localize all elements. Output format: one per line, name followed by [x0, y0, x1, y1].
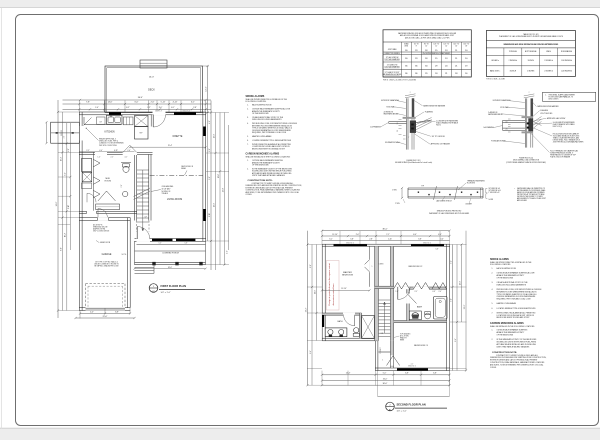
svg-text:DINETTE: DINETTE	[173, 136, 183, 138]
svg-text:CODES.: CODES.	[490, 367, 497, 369]
svg-text:6'-8": 6'-8"	[418, 239, 422, 241]
svg-text:2x RIM BD W/: 2x RIM BD W/	[384, 112, 394, 114]
svg-text:5'-1": 5'-1"	[209, 176, 211, 180]
svg-text:W 3/4" DECK BD: W 3/4" DECK BD	[540, 113, 553, 115]
svg-text:11'-4": 11'-4"	[346, 373, 351, 375]
svg-text:FOLLOWING LOCATIONS:: FOLLOWING LOCATIONS:	[490, 263, 511, 266]
svg-text:TOP EDGE: TOP EDGE	[509, 51, 517, 53]
svg-text:A1: A1	[152, 290, 154, 293]
svg-text:5'-8": 5'-8"	[350, 239, 354, 241]
svg-text:28'-0": 28'-0"	[218, 173, 220, 178]
svg-text:11'-10": 11'-10"	[332, 234, 338, 236]
svg-text:1/4" = 1'-0": 1/4" = 1'-0"	[397, 411, 407, 413]
svg-text:6'-8": 6'-8"	[433, 373, 437, 375]
svg-text:6'-1": 6'-1"	[329, 239, 333, 241]
svg-text:GARAGE: GARAGE	[102, 253, 112, 256]
svg-text:2'-0": 2'-0"	[63, 135, 65, 138]
svg-text:dimensions noted here: dimensions noted here	[332, 283, 335, 306]
svg-text:3/4 INCH: 3/4 INCH	[528, 60, 534, 62]
svg-text:3'-8": 3'-8"	[209, 148, 211, 152]
svg-text:LIVING ROOM: LIVING ROOM	[167, 199, 182, 201]
svg-text:2 INCHES b: 2 INCHES b	[544, 60, 553, 62]
svg-text:4'-11": 4'-11"	[173, 102, 178, 104]
svg-text:Design is posted about to the: Design is posted about to the square ext…	[328, 263, 331, 306]
svg-text:BEDROOM #3: BEDROOM #3	[414, 345, 428, 347]
svg-text:BEDROOM: BEDROOM	[342, 275, 353, 277]
svg-text:14'-6": 14'-6"	[108, 102, 113, 104]
svg-text:DWELLING INCLUDING BASEMENTS: DWELLING INCLUDING BASEMENTS	[252, 118, 282, 121]
svg-text:ENDS: ENDS	[546, 51, 550, 53]
svg-text:14'1" TO: 14'1" TO	[454, 44, 460, 46]
svg-text:SMOKE ALARMS: SMOKE ALARMS	[490, 258, 509, 261]
svg-text:SHOWN IN THE FIGURE TO COMPLY: SHOWN IN THE FIGURE TO COMPLY	[517, 196, 543, 198]
svg-text:CODES.: CODES.	[246, 194, 253, 196]
svg-text:FIRST FLOOR PLAN: FIRST FLOOR PLAN	[161, 284, 187, 288]
svg-text:SELF CLOSING DEVICE: SELF CLOSING DEVICE	[93, 231, 109, 233]
svg-text:HABITED LIVING AREAS: HABITED LIVING AREAS	[252, 135, 272, 138]
svg-text:NOSING OF: NOSING OF	[162, 191, 171, 193]
svg-text:4'-1": 4'-1"	[209, 120, 211, 124]
svg-text:1'-4": 1'-4"	[95, 107, 99, 109]
svg-text:COVERED PORCH: COVERED PORCH	[162, 253, 179, 255]
svg-text:CARBON MONOXIDE ALARMS: CARBON MONOXIDE ALARMS	[490, 322, 524, 325]
svg-text:BATH: BATH	[338, 320, 344, 323]
svg-text:2'-2": 2'-2"	[147, 107, 151, 109]
svg-text:2 INCHES: 2 INCHES	[527, 71, 534, 73]
svg-text:2'-5": 2'-5"	[415, 291, 418, 293]
svg-text:REQUIRED, PER TOWN AND LOCAL C: REQUIRED, PER TOWN AND LOCAL CODE	[252, 131, 287, 134]
svg-text:NOTE:: NOTE:	[122, 254, 127, 256]
svg-text:4'-0": 4'-0"	[90, 311, 94, 313]
svg-text:6'-0": 6'-0"	[413, 234, 417, 236]
svg-text:6'-1": 6'-1"	[191, 102, 195, 104]
svg-text:3/4" MIN FOR 2x10: 3/4" MIN FOR 2x10	[489, 190, 501, 192]
svg-text:2" MIN: 2" MIN	[392, 190, 397, 192]
svg-text:EACH SLEEPING ROOM: EACH SLEEPING ROOM	[497, 267, 517, 270]
svg-text:16'-0": 16'-0"	[168, 267, 173, 269]
svg-text:5: 5	[382, 360, 383, 362]
svg-text:1-5/8 INCHES b: 1-5/8 INCHES b	[561, 60, 572, 62]
svg-text:4'-0": 4'-0"	[438, 234, 442, 236]
svg-text:8'-1": 8'-1"	[310, 264, 312, 268]
svg-text:NEW BOXED IN: NEW BOXED IN	[181, 166, 194, 168]
svg-text:10'-2": 10'-2"	[65, 232, 67, 237]
svg-text:OF THE BEDROOMS: OF THE BEDROOMS	[252, 113, 269, 115]
svg-text:OF THE BEDROOMS: OF THE BEDROOMS	[252, 165, 269, 167]
svg-text:8'-11": 8'-11"	[209, 213, 211, 218]
svg-text:13'-6": 13'-6"	[459, 280, 461, 285]
svg-text:BATH: BATH	[417, 305, 423, 308]
svg-text:SHALL BE INSTALLED IN THE FOLL: SHALL BE INSTALLED IN THE FOLLOWING LOCA…	[490, 325, 535, 328]
svg-text:5'-8": 5'-8"	[436, 249, 439, 251]
svg-text:BEDROOMS EVERY ROOMS AND STORY: BEDROOMS EVERY ROOMS AND STORY	[252, 147, 286, 150]
svg-text:1'-11": 1'-11"	[388, 239, 393, 241]
svg-text:2'-6": 2'-6"	[151, 102, 155, 104]
svg-text:LEDGER a: LEDGER a	[491, 60, 499, 62]
svg-text:23'-2": 23'-2"	[305, 307, 307, 312]
svg-text:EACH SLEEPING ROOM: EACH SLEEPING ROOM	[252, 104, 272, 107]
svg-text:6'-8": 6'-8"	[433, 291, 436, 293]
svg-text:TYP: TYP	[421, 186, 424, 188]
svg-text:5'-0": 5'-0"	[383, 373, 387, 375]
svg-text:KITCHEN: KITCHEN	[104, 131, 114, 133]
svg-text:2" MIN: 2" MIN	[395, 203, 400, 205]
svg-text:5'-11": 5'-11"	[161, 102, 166, 104]
svg-text:R507.9.1.3(1): R507.9.1.3(1)	[553, 126, 563, 128]
svg-text:LESS: LESS	[404, 46, 408, 48]
svg-text:FOLLOWING LOCATIONS:: FOLLOWING LOCATIONS:	[246, 100, 267, 103]
svg-text:SCREW PREDRILLED W/ MIN. 3": SCREW PREDRILLED W/ MIN. 3"	[550, 152, 574, 154]
svg-text:REF: REF	[140, 133, 143, 135]
svg-text:MUD: MUD	[106, 178, 111, 180]
svg-text:BOTTOM EDGE: BOTTOM EDGE	[525, 51, 536, 53]
svg-text:6'-1": 6'-1"	[171, 107, 175, 109]
svg-text:FOR SI: 1 INCH = 25.4 MM: FOR SI: 1 INCH = 25.4 MM	[486, 79, 505, 81]
svg-text:SECOND FLOOR PLAN: SECOND FLOOR PLAN	[397, 402, 426, 406]
svg-text:2'-0": 2'-0"	[111, 157, 114, 159]
svg-text:7'-8": 7'-8"	[86, 102, 90, 104]
svg-text:6'-0": 6'-0"	[135, 102, 139, 104]
svg-text:6'-8": 6'-8"	[115, 311, 119, 313]
svg-text:14'-6": 14'-6"	[206, 86, 208, 91]
svg-text:1-5/8 INCHES b: 1-5/8 INCHES b	[561, 71, 572, 73]
svg-text:34'-0": 34'-0"	[56, 201, 58, 206]
svg-text:2x RIM BD W/: 2x RIM BD W/	[488, 112, 498, 114]
svg-text:15'-4": 15'-4"	[168, 145, 173, 147]
svg-text:1" MIN FOR 2x12: 1" MIN FOR 2x12	[489, 192, 500, 194]
svg-text:IN 2 ROWS: IN 2 ROWS	[467, 183, 475, 185]
svg-text:6'-8": 6'-8"	[405, 373, 409, 375]
svg-text:7'-1": 7'-1"	[386, 234, 390, 236]
svg-text:2'-8": 2'-8"	[121, 184, 123, 187]
svg-text:LEDGER: LEDGER	[466, 204, 473, 206]
svg-text:ROOM: ROOM	[105, 181, 112, 183]
svg-text:4'-2": 4'-2"	[125, 157, 128, 159]
svg-text:UNITS THAT HAVE ATTACHED GARAG: UNITS THAT HAVE ATTACHED GARAGES	[497, 345, 531, 348]
svg-text:2x MIN: 2x MIN	[489, 199, 493, 201]
svg-text:1'-6": 1'-6"	[98, 157, 101, 159]
svg-text:9'-6": 9'-6"	[455, 338, 457, 342]
svg-text:10'1" TO: 10'1" TO	[434, 44, 440, 46]
svg-text:FIGURE R507.2.1(1): FIGURE R507.2.1(1)	[406, 160, 421, 162]
svg-text:HABITED LIVING AREAS: HABITED LIVING AREAS	[497, 302, 517, 305]
svg-text:12'1" TO: 12'1" TO	[444, 44, 450, 46]
svg-text:13'-6": 13'-6"	[213, 202, 215, 207]
svg-text:16'-4": 16'-4"	[60, 156, 62, 161]
svg-text:AND SIZES, TO BE DETERMINED PE: AND SIZES, TO BE DETERMINED PER OWNER/CO…	[246, 191, 299, 194]
svg-text:2'-8": 2'-8"	[193, 107, 197, 109]
svg-text:R507.2: R507.2	[436, 125, 441, 127]
svg-text:FOR SI: 1 INCH = 25.4 MM, 1 FO: FOR SI: 1 INCH = 25.4 MM, 1 FOOT = 304.8…	[383, 79, 417, 81]
svg-text:AND SIZES, TO BE DETERMINED PE: AND SIZES, TO BE DETERMINED PER OWNER/CO…	[490, 363, 543, 366]
svg-text:36'-0": 36'-0"	[382, 229, 387, 231]
svg-text:9'-6": 9'-6"	[310, 350, 312, 354]
svg-text:DWELLING INCLUDING BASEMENTS: DWELLING INCLUDING BASEMENTS	[497, 283, 527, 286]
svg-text:OF THE BEDROOMS: OF THE BEDROOMS	[497, 335, 514, 337]
svg-text:DECK: DECK	[148, 89, 155, 92]
svg-text:8'-0": 8'-0"	[60, 247, 62, 251]
svg-text:22'-0": 22'-0"	[103, 316, 108, 318]
svg-text:4'-0": 4'-0"	[440, 239, 444, 241]
svg-text:BEDROOM #2: BEDROOM #2	[409, 266, 423, 268]
svg-text:3/4 INCH: 3/4 INCH	[510, 71, 516, 73]
svg-text:FIGURE R507.9.2(1): FIGURE R507.9.2(1)	[519, 158, 534, 160]
svg-text:14'-6": 14'-6"	[213, 133, 215, 138]
svg-text:4'-6": 4'-6"	[226, 250, 228, 254]
svg-text:MASTER: MASTER	[343, 271, 352, 274]
svg-text:A2: A2	[389, 408, 391, 411]
svg-text:16'-0": 16'-0"	[383, 378, 388, 380]
svg-text:5/8" MIN FOR 2x8: 5/8" MIN FOR 2x8	[489, 188, 501, 190]
svg-text:SHALL BE INSTALLED IN THE FOLL: SHALL BE INSTALLED IN THE FOLLOWING LOCA…	[246, 156, 291, 159]
svg-text:HERE: HERE	[400, 340, 404, 342]
svg-text:2'-8": 2'-8"	[68, 148, 70, 152]
svg-text:36'-0": 36'-0"	[138, 97, 143, 99]
svg-text:LOCATED MINIMUM TYPE & DESIGN: LOCATED MINIMUM TYPE & DESIGN APPROVED	[252, 139, 292, 142]
svg-text:11'-10": 11'-10"	[341, 288, 347, 290]
svg-text:2 INCHES b: 2 INCHES b	[544, 71, 553, 73]
svg-text:REQUIRED, PER TOWN AND LOCAL C: REQUIRED, PER TOWN AND LOCAL CODE	[497, 298, 532, 301]
svg-text:11'-6": 11'-6"	[314, 290, 316, 295]
svg-text:CEILING COMMON TO HOUSE TO: CEILING COMMON TO HOUSE TO	[94, 264, 120, 266]
svg-text:2'-8": 2'-8"	[369, 239, 373, 241]
svg-text:DECK JOISTS: DECK JOISTS	[549, 98, 559, 100]
svg-text:1/4" = 1'-0": 1/4" = 1'-0"	[161, 292, 171, 294]
svg-text:CONSTRUCTION NOTE:: CONSTRUCTION NOTE:	[492, 352, 517, 354]
svg-text:6'-2": 6'-2"	[126, 107, 130, 109]
svg-text:PER SITE CONDITIONS: PER SITE CONDITIONS	[99, 145, 117, 147]
svg-text:CARBON MONOXIDE ALARMS: CARBON MONOXIDE ALARMS	[246, 153, 280, 156]
svg-text:BEDROOMS EVERY ROOMS AND STORY: BEDROOMS EVERY ROOMS AND STORY	[497, 316, 531, 319]
svg-text:2'-4": 2'-4"	[439, 291, 442, 293]
svg-text:WINDOW #2: WINDOW #2	[408, 365, 416, 367]
svg-text:2'-10": 2'-10"	[68, 204, 70, 209]
svg-text:7'-4": 7'-4"	[450, 260, 452, 264]
svg-text:3'-0": 3'-0"	[159, 107, 163, 109]
svg-text:CONSTRUCTION NOTE:: CONSTRUCTION NOTE:	[248, 180, 273, 182]
svg-text:34'-8": 34'-8"	[222, 187, 224, 192]
svg-text:CLOSET: CLOSET	[380, 347, 382, 353]
svg-text:16'1" TO: 16'1" TO	[464, 44, 470, 46]
svg-text:1'-6": 1'-6"	[396, 291, 399, 293]
svg-text:DWELLING TUBS, PIPE &: DWELLING TUBS, PIPE &	[99, 141, 119, 143]
svg-text:2 INCHES d: 2 INCHES d	[509, 60, 518, 62]
svg-text:OF THE BEDROOMS: OF THE BEDROOMS	[497, 277, 514, 279]
svg-text:16'-0": 16'-0"	[149, 77, 155, 79]
svg-text:3/4" P.T. DECK BD: 3/4" P.T. DECK BD	[432, 136, 446, 138]
svg-text:7'-1": 7'-1"	[450, 298, 452, 302]
svg-text:UNITS THAT HAVE ATTACHED GARAG: UNITS THAT HAVE ATTACHED GARAGES	[252, 174, 286, 177]
svg-text:36'-0": 36'-0"	[383, 383, 388, 385]
svg-text:SMOKE ALARMS: SMOKE ALARMS	[246, 95, 265, 98]
svg-text:LOCATED MINIMUM TYPE & DESIGN: LOCATED MINIMUM TYPE & DESIGN APPROVED	[497, 307, 537, 310]
svg-text:2'-0": 2'-0"	[356, 234, 360, 236]
svg-text:23'-2": 23'-2"	[464, 304, 466, 309]
svg-text:6'-2": 6'-2"	[65, 172, 67, 176]
